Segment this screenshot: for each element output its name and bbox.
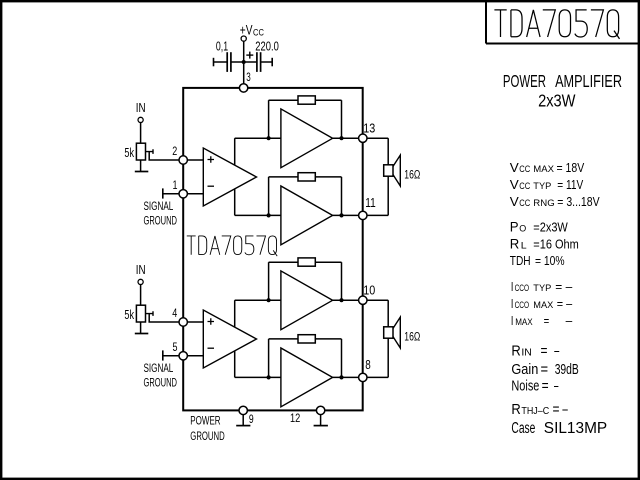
svg-text:5: 5 — [173, 340, 178, 354]
svg-text:TYP: TYP — [533, 181, 551, 192]
svg-text:O: O — [519, 223, 526, 234]
svg-text:220.0: 220.0 — [255, 39, 279, 53]
node input A1 — [267, 136, 271, 140]
title text TDA7057Q — [494, 10, 619, 39]
node output A1 — [339, 136, 343, 140]
svg-text:5k: 5k — [124, 308, 134, 322]
wire speaker drop B — [387, 300, 389, 327]
wire IN to potentiometer B — [140, 285, 142, 306]
pin 8 — [359, 373, 367, 381]
svg-text:L: L — [521, 240, 527, 251]
svg-text:R: R — [511, 343, 521, 360]
svg-text:11: 11 — [365, 196, 376, 210]
ground potentiometer A — [135, 171, 149, 173]
wire output B1 to pin 10 — [333, 299, 389, 301]
op-amp input stage A — [203, 148, 256, 206]
svg-text:R: R — [510, 235, 520, 251]
svg-text:SIL13MP: SIL13MP — [544, 420, 607, 437]
svg-text:=16 Ohm: =16 Ohm — [533, 236, 579, 251]
power amp B2 — [281, 348, 333, 407]
svg-text:POWER: POWER — [190, 414, 221, 428]
speaker LSA 16 ohm — [384, 165, 393, 176]
svg-text:= 18V: = 18V — [557, 160, 585, 175]
pin 5 — [179, 352, 187, 360]
svg-text:CC: CC — [519, 181, 530, 192]
wire wiper to pin 4 B — [149, 314, 203, 322]
capacitor C2 220.0 electrolytic — [256, 52, 258, 72]
svg-text:=2x3W: =2x3W — [533, 219, 568, 234]
svg-text:= –: = – — [555, 279, 573, 294]
svg-text:V: V — [510, 194, 519, 209]
wire potentiometer to ground A — [140, 160, 142, 172]
svg-text:I: I — [511, 296, 514, 311]
svg-text:= –: = – — [557, 296, 573, 311]
wire signal ground to pin 1 A — [163, 193, 204, 195]
wire feedback row A1 — [269, 99, 298, 101]
op-amp A plus input — [208, 156, 215, 163]
node input B2 — [267, 375, 271, 379]
pin 2 — [179, 156, 187, 164]
svg-text:3: 3 — [246, 70, 251, 84]
svg-text:I: I — [511, 313, 514, 328]
svg-text:=: = — [542, 378, 549, 395]
wire feedback right A2 — [341, 177, 343, 216]
wire feedback left B1 — [268, 262, 270, 300]
terminal signal ground A — [162, 188, 164, 198]
pin 3 VCC — [239, 84, 247, 92]
svg-text:10: 10 — [363, 284, 375, 298]
node output A2 — [339, 213, 343, 217]
wire to op-amp B1 input — [235, 299, 281, 301]
wire to op-amp B2 input — [235, 376, 281, 378]
pin 12 power ground — [316, 406, 324, 414]
svg-text:POWER: POWER — [503, 71, 546, 91]
wire VCC vertical to pin 3 — [243, 41, 245, 84]
wire capacitor row — [214, 61, 227, 63]
svg-text:9: 9 — [249, 412, 254, 426]
svg-text:2: 2 — [172, 144, 177, 158]
svg-text:39dB: 39dB — [555, 361, 579, 378]
wire output A1 to pin 13 — [333, 137, 389, 139]
svg-text:CC: CC — [519, 198, 530, 209]
svg-text:CC: CC — [519, 164, 530, 175]
svg-text:0,1: 0,1 — [216, 39, 228, 53]
svg-text:= 11V: = 11V — [557, 177, 583, 192]
svg-text:12: 12 — [290, 411, 301, 425]
svg-text:GROUND: GROUND — [144, 213, 178, 227]
svg-text:MAX: MAX — [533, 164, 554, 175]
svg-text:AMPLIFIER: AMPLIFIER — [555, 71, 622, 91]
svg-text:RNG: RNG — [533, 198, 554, 209]
label U1 TDA7057Q — [187, 236, 277, 256]
resistor feedback B1 — [298, 258, 315, 266]
C2 polarity + — [246, 54, 253, 56]
svg-text:16Ω: 16Ω — [404, 168, 420, 182]
wire input-node bus B — [234, 300, 236, 377]
svg-text:=: = — [541, 361, 549, 378]
resistor feedback A1 — [298, 96, 315, 104]
svg-text:16Ω: 16Ω — [404, 330, 420, 344]
wire feedback row B2 — [269, 338, 298, 340]
wire output B2 to pin 8 — [333, 376, 389, 378]
wire input-node bus A — [234, 138, 236, 215]
svg-text:MAX: MAX — [515, 317, 533, 328]
pin 10 — [359, 296, 367, 304]
wire feedback left A2 — [268, 177, 270, 216]
wire feedback row B1 — [269, 261, 298, 263]
wire output A2 to pin 11 — [333, 214, 389, 216]
svg-text:13: 13 — [363, 122, 375, 136]
power amp A2 — [281, 186, 333, 245]
node output B1 — [339, 298, 343, 302]
ground potentiometer B — [135, 333, 149, 335]
svg-text:R: R — [511, 401, 521, 418]
op-amp A minus input — [208, 185, 215, 187]
terminal IN A — [138, 117, 143, 122]
svg-text:GROUND: GROUND — [144, 375, 178, 389]
svg-text:–: – — [554, 378, 559, 395]
node input A2 — [267, 213, 271, 217]
potentiometer 5k A — [136, 143, 145, 160]
terminal IN B — [138, 279, 143, 284]
svg-text:= 10%: = 10% — [535, 253, 565, 268]
svg-text:SIGNAL: SIGNAL — [144, 199, 174, 213]
svg-text:THJ–C: THJ–C — [521, 406, 549, 417]
node VCC junction — [242, 60, 246, 64]
resistor feedback B2 — [298, 335, 315, 343]
speaker LSB 16 ohm — [384, 327, 393, 338]
svg-text:=: = — [541, 343, 548, 360]
wire feedback row A2 — [269, 176, 298, 178]
svg-text:TYP: TYP — [533, 283, 551, 294]
svg-text:5k: 5k — [124, 146, 134, 160]
svg-text:–: – — [562, 401, 568, 418]
svg-text:CC: CC — [253, 28, 264, 38]
pin 11 — [359, 211, 367, 219]
svg-text:V: V — [510, 177, 519, 192]
svg-text:CCO: CCO — [515, 300, 530, 311]
wire speaker drop A — [387, 138, 389, 165]
wire wiper to pin 2 A — [149, 152, 203, 160]
svg-text:= 3...18V: = 3...18V — [557, 194, 600, 209]
svg-text:I: I — [511, 279, 514, 294]
op-amp B plus input — [208, 318, 215, 325]
svg-text:Noise: Noise — [511, 378, 539, 395]
wire to op-amp A2 input — [235, 214, 281, 216]
svg-text:Gain: Gain — [511, 361, 538, 378]
node output B2 — [339, 375, 343, 379]
svg-text:+V: +V — [240, 23, 253, 38]
svg-text:SIGNAL: SIGNAL — [144, 361, 174, 375]
svg-text:2x3W: 2x3W — [538, 91, 576, 111]
svg-text:1: 1 — [173, 178, 178, 192]
svg-text:CCO: CCO — [515, 283, 530, 294]
wire potentiometer to ground B — [140, 322, 142, 334]
IC U1 TDA7057Q body — [183, 88, 363, 411]
potentiometer 5k B — [136, 305, 145, 322]
resistor feedback A2 — [298, 173, 315, 181]
ground pin 9 — [242, 415, 244, 426]
op-amp B minus input — [208, 347, 215, 349]
svg-text:8: 8 — [365, 358, 371, 372]
ground pin 12 — [320, 415, 322, 426]
power amp B1 — [281, 271, 333, 330]
svg-text:Case: Case — [511, 420, 535, 437]
terminal +VCC — [241, 36, 246, 41]
wire feedback right A1 — [341, 100, 343, 138]
power amp A1 — [281, 109, 333, 168]
wire IN to potentiometer A — [140, 123, 142, 144]
svg-text:P: P — [510, 218, 519, 234]
terminal signal ground B — [162, 350, 164, 360]
wire to op-amp A1 input — [235, 137, 281, 139]
pin 4 — [179, 318, 187, 326]
svg-text:IN: IN — [136, 263, 146, 277]
title block box — [485, 1, 487, 44]
svg-text:IN: IN — [136, 101, 146, 115]
wire signal ground to pin 5 B — [163, 355, 204, 357]
svg-text:=: = — [553, 401, 560, 418]
pin 9 power ground — [239, 406, 247, 414]
svg-text:MAX: MAX — [533, 300, 554, 311]
wire feedback right B1 — [341, 262, 343, 300]
svg-text:IN: IN — [521, 348, 532, 359]
wire feedback left A1 — [268, 100, 270, 138]
svg-text:=: = — [544, 313, 550, 328]
node input B1 — [267, 298, 271, 302]
wire feedback left B2 — [268, 339, 270, 378]
pin 1 — [179, 190, 187, 198]
svg-text:GROUND: GROUND — [190, 429, 225, 443]
wire feedback right B2 — [341, 339, 343, 378]
svg-text:TDH: TDH — [510, 253, 531, 268]
svg-text:–: – — [566, 313, 573, 328]
svg-text:4: 4 — [172, 306, 177, 320]
capacitor C1 0,1 — [226, 52, 228, 72]
svg-text:V: V — [510, 160, 519, 175]
op-amp input stage B — [203, 310, 256, 368]
pin 13 — [359, 134, 367, 142]
svg-text:–: – — [554, 343, 559, 360]
